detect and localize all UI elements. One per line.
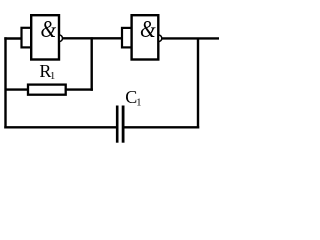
NAND gate U2 body <box>132 15 159 59</box>
wire: left rail to R1 left terminal <box>6 88 30 90</box>
wire: bottom rail from left rail to C1 left plate <box>4 126 116 128</box>
NAND gate U1 output inversion bubble <box>59 35 62 42</box>
svg-text:1: 1 <box>136 98 141 109</box>
svg-text:&: & <box>140 16 156 43</box>
NAND gate U1 body <box>31 15 59 59</box>
wire: U1 output to U2 input (node B) <box>63 37 122 39</box>
wire: left vertical rail (node A, U1 input / R1 left / C1 left net) <box>4 37 6 128</box>
NAND gate U1 input box (two inputs tied together) <box>22 28 32 48</box>
wire: input net from left rail corner to gate U1 input box <box>4 37 21 39</box>
capacitor C1 left plate <box>116 106 119 143</box>
wire: U2 output stub to the right (output terminal) <box>162 37 219 39</box>
capacitor C1 right plate <box>122 106 125 143</box>
wire: bottom rail from C1 right plate to right junction drop <box>124 126 199 128</box>
wire: junction drop from node B down to R1 right side <box>90 37 92 91</box>
wire: R1 right terminal to junction drop <box>65 88 93 90</box>
NAND gate U2 input box (two inputs tied together) <box>122 28 132 48</box>
wire: junction drop from U2 output down to C1 right side <box>197 38 199 129</box>
resistor R1 <box>28 85 66 95</box>
svg-text:&: & <box>40 15 56 42</box>
NAND gate U2 output inversion bubble <box>159 35 162 42</box>
svg-text:1: 1 <box>50 71 55 82</box>
